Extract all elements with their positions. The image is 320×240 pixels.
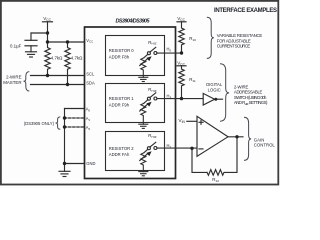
svg-text:INTERFACE EXAMPLES: INTERFACE EXAMPLES bbox=[214, 8, 277, 14]
svg-text:H0: H0 bbox=[167, 47, 172, 53]
svg-text:GND: GND bbox=[86, 161, 95, 166]
svg-text:SCL: SCL bbox=[86, 72, 95, 77]
svg-text:DS3904/DS3905: DS3904/DS3905 bbox=[116, 19, 151, 25]
svg-text:ADDR F9h: ADDR F9h bbox=[109, 103, 130, 108]
svg-text:MASTER: MASTER bbox=[3, 80, 21, 85]
svg-text:4.7kΩ: 4.7kΩ bbox=[51, 56, 63, 61]
svg-text:CONTROL: CONTROL bbox=[254, 142, 276, 147]
svg-text:ADDRESSABLE: ADDRESSABLE bbox=[234, 90, 263, 95]
svg-text:2-WIRE: 2-WIRE bbox=[234, 84, 249, 89]
svg-text:H1: H1 bbox=[167, 93, 172, 99]
svg-text:4.7kΩ: 4.7kΩ bbox=[71, 56, 83, 61]
svg-text:A0: A0 bbox=[86, 107, 91, 113]
svg-text:RESISTOR 1: RESISTOR 1 bbox=[109, 96, 134, 101]
svg-text:SWITCH (USING 00h: SWITCH (USING 00h bbox=[234, 95, 267, 100]
svg-text:CURRENT SOURCE: CURRENT SOURCE bbox=[217, 44, 251, 49]
svg-text:ADDR FAh: ADDR FAh bbox=[109, 152, 130, 157]
svg-text:RESISTOR 2: RESISTOR 2 bbox=[109, 146, 134, 151]
svg-text:RESISTOR 0: RESISTOR 0 bbox=[109, 48, 134, 53]
svg-text:0.1µF: 0.1µF bbox=[10, 44, 22, 49]
svg-text:(DS3905 ONLY): (DS3905 ONLY) bbox=[24, 121, 55, 126]
svg-text:VCC: VCC bbox=[86, 38, 93, 44]
svg-text:A1: A1 bbox=[86, 116, 91, 122]
svg-text:A2: A2 bbox=[86, 125, 91, 131]
svg-text:2-WIRE: 2-WIRE bbox=[6, 74, 21, 79]
svg-text:H2: H2 bbox=[167, 143, 172, 149]
svg-text:AND RHIZ SETTINGS): AND RHIZ SETTINGS) bbox=[234, 100, 268, 106]
svg-text:SDA: SDA bbox=[86, 80, 95, 85]
svg-text:ADDR F8h: ADDR F8h bbox=[109, 54, 130, 59]
svg-text:LOGIC: LOGIC bbox=[208, 87, 221, 92]
